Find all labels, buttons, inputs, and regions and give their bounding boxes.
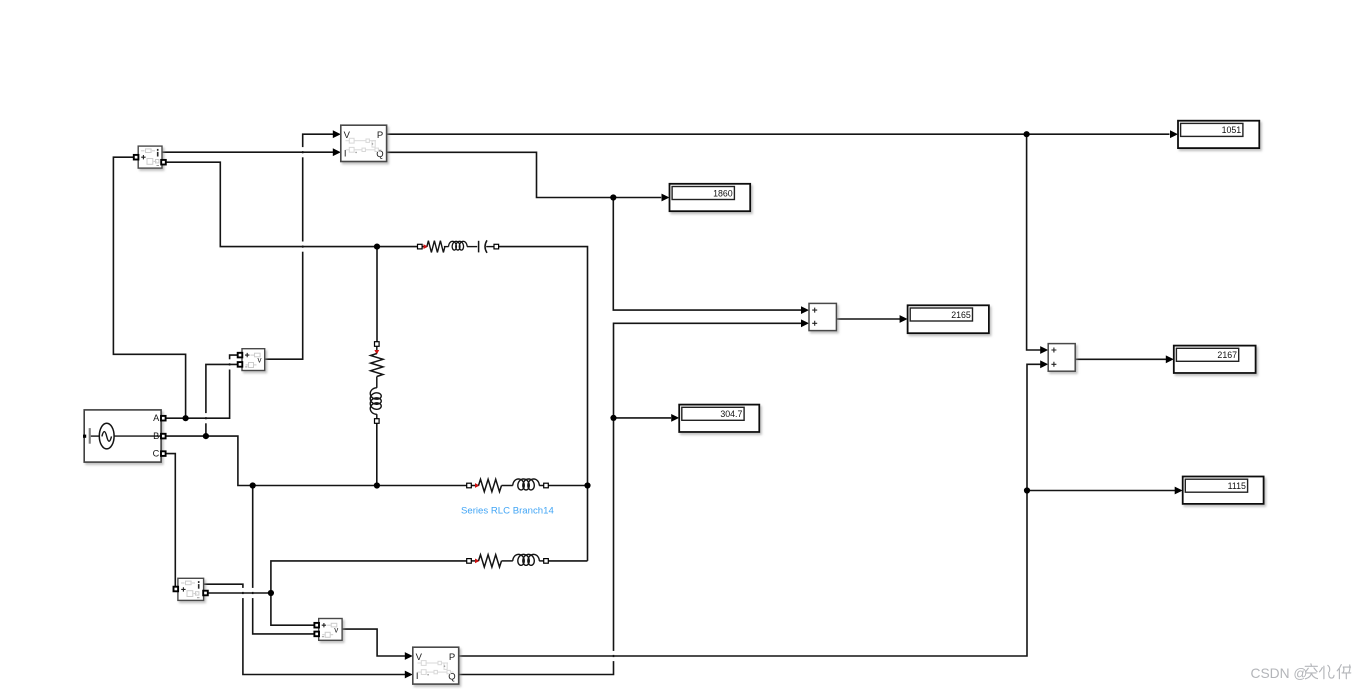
display 1051: [1178, 121, 1259, 148]
arrow into display 2165: [900, 315, 908, 323]
node dot B-wire: [203, 433, 209, 439]
voltage measurement block 1: [238, 349, 265, 371]
svg-text:1860: 1860: [713, 188, 733, 198]
arrow into PQ2 V: [405, 652, 413, 660]
current measurement block 1: [134, 146, 166, 168]
arrow into PQ2 I: [405, 671, 413, 679]
node dot P2 signal: [1024, 487, 1030, 493]
wire phase A branch to current measurement 1 input: [113, 157, 185, 418]
arrow into PQ1 I: [333, 148, 341, 156]
signal v2 out to PQ2 V input: [342, 629, 406, 656]
svg-text:304.7: 304.7: [720, 409, 742, 419]
resistor-inductor branch vertical: [370, 342, 383, 694]
svg-text:1115: 1115: [1228, 481, 1246, 491]
svg-text:1051: 1051: [1222, 125, 1242, 135]
svg-text:v: v: [258, 356, 262, 365]
sum block 2: [1048, 344, 1075, 372]
wire phase C down to current measurement 2 input: [166, 454, 176, 589]
signal i1 to PQ1 I input: [162, 151, 334, 153]
arrow into sum1 bottom: [801, 319, 809, 327]
arrowheads: [333, 130, 1183, 678]
svg-text:B: B: [153, 431, 159, 441]
display 304.7: [679, 405, 759, 432]
display 1860: [670, 184, 751, 211]
arrow into sum1 top: [801, 306, 809, 314]
node dot vertical RL bottom: [374, 482, 380, 488]
wire junction up to RL2 left port: [271, 561, 467, 593]
arrow into display 2167: [1166, 355, 1174, 363]
signal sum2 out to display 2167: [1075, 358, 1166, 360]
svg-text:C: C: [153, 448, 160, 458]
signal v1 out to PQ1 V input: [265, 134, 334, 359]
three-phase source block: [83, 410, 166, 462]
voltage measurement block 2: [314, 619, 342, 641]
sum block 1: [809, 303, 836, 330]
arrow into display 304.7: [671, 414, 679, 422]
wire RL1 right port to vertical net: [548, 485, 587, 487]
signal Q1 to display 1860 and sum1: [387, 152, 662, 197]
svg-text:Q: Q: [376, 149, 383, 160]
arrow into sum2 bottom: [1040, 360, 1048, 368]
node dot Q1 signal: [610, 194, 616, 200]
svg-text:Q: Q: [448, 671, 455, 682]
svg-text:P: P: [449, 652, 455, 663]
node dot right vertical net: [584, 482, 590, 488]
node dot RLC1 top net: [374, 244, 380, 250]
svg-text:2165: 2165: [951, 310, 971, 320]
svg-text:A: A: [153, 413, 160, 423]
wire current2 minus to junction: [206, 592, 271, 594]
wire junction down to v2 plus: [271, 593, 314, 625]
wire phase B: source B right, down, to RL1 left port: [166, 436, 467, 485]
arrow into PQ1 V: [333, 130, 341, 138]
display 2165: [908, 305, 989, 333]
svg-text:CSDN @: CSDN @: [1251, 666, 1308, 681]
series RLC branch horizontal (R L C): [418, 240, 499, 253]
power measurement subsystem PQ2: [413, 647, 459, 684]
resistor-inductor branch RL1 (Series RLC Branch14): [467, 479, 944, 492]
node dot A-wire: [183, 415, 189, 421]
wire RL2 right port to vertical net: [548, 560, 587, 562]
arrow into sum2 top: [1040, 346, 1048, 354]
svg-text:P: P: [377, 130, 383, 141]
arrow into display 1115: [1175, 487, 1183, 495]
svg-text:Series RLC Branch14: Series RLC Branch14: [461, 505, 554, 516]
signal P2 right and up to sum2 bottom input, branch to display 1115: [459, 364, 1041, 656]
current measurement block 2: [174, 578, 208, 600]
wire RLC1 right port right and down to RL2: [499, 247, 588, 561]
signal P1 to display 1051 and sum2: [387, 133, 1170, 135]
power measurement subsystem PQ1: [341, 125, 387, 161]
svg-text:v: v: [334, 625, 338, 634]
crossing gaps: [205, 147, 615, 661]
node dot B net on 485 line: [250, 482, 256, 488]
signal Q2 up to sum1 bottom input, branch to display 304.7: [459, 323, 802, 674]
node dot P1 signal: [1024, 131, 1030, 137]
node dot Q2 signal: [610, 415, 616, 421]
wire vertical RL bottom port to B net: [376, 423, 378, 485]
signal sum1 out to display 2165: [836, 318, 900, 320]
arrow into display 1051: [1170, 130, 1178, 138]
wire node to vertical RL top port: [376, 247, 378, 342]
node dot current2 minus net: [268, 590, 274, 596]
wire phase A: source A to v1+: [166, 355, 238, 418]
signal i2 to PQ2 I input: [204, 584, 406, 674]
display 1115: [1183, 477, 1264, 504]
resistor-inductor branch RL2: [467, 554, 944, 567]
wire phase B branch to v1 minus: [206, 364, 238, 436]
arrow into display 1860: [662, 194, 670, 202]
wire current1 minus to RLC1 left port: [166, 162, 418, 246]
wire B branch down to v2 minus: [253, 486, 314, 634]
display 2167: [1174, 346, 1256, 373]
watermark CSDN: [1251, 664, 1351, 681]
svg-text:2167: 2167: [1217, 350, 1237, 360]
